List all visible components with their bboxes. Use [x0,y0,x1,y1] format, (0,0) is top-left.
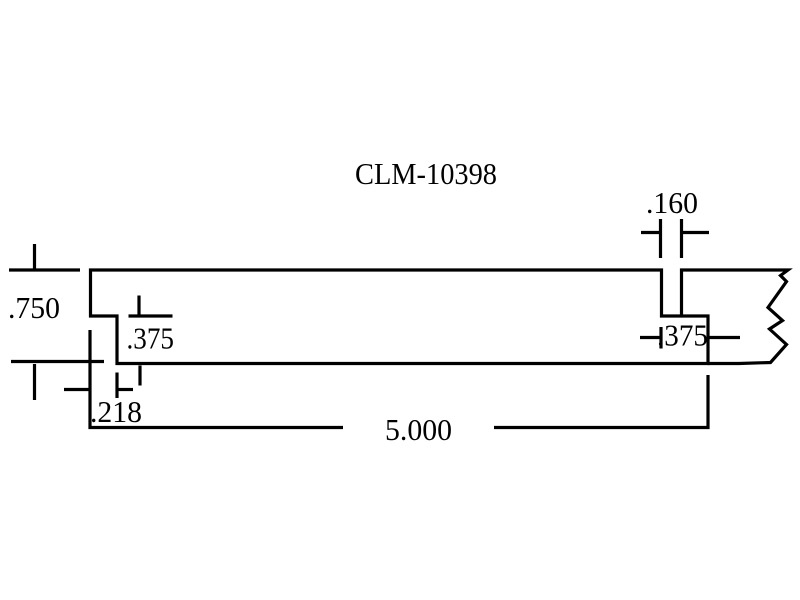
dim .375 right tick [659,327,662,349]
dim .218 left extension line [90,330,343,428]
svg-text:.218: .218 [90,394,142,429]
dim .375 right dimension line left segment [640,336,660,339]
dim .218 right tick [138,366,141,386]
svg-text:.375: .375 [657,318,708,353]
dim .750 bottom extension line [11,360,104,363]
dim .160 dimension line left segment [641,231,659,234]
dim .375 left dimension line [129,314,173,317]
dim .218 dimension line right segment [119,388,134,391]
svg-text:.160: .160 [646,185,698,220]
svg-text:CLM-10398: CLM-10398 [355,156,497,191]
part top-right broken section [682,270,789,364]
svg-text:.750: .750 [8,290,60,325]
dim .375 right dimension line right segment [710,336,741,339]
svg-text:5.000: 5.000 [385,412,452,447]
dim .218 dimension line left segment [64,388,89,391]
dim .750 top extension line [9,268,80,271]
dim .750 top tick [33,244,36,269]
dim .160 right tick [680,219,683,258]
part main outline [91,270,709,364]
dim .750 bottom tick [33,364,36,400]
svg-text:.375: .375 [127,321,175,356]
dim 5.000 right extension line [494,375,708,428]
dim .375 left tick [137,296,140,316]
dim .218 right extension line [115,373,118,399]
dim .160 left tick [659,219,662,258]
dim .160 dimension line right segment [683,231,709,234]
